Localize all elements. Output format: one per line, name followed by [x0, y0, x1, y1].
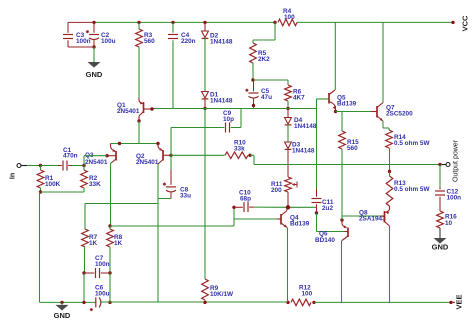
svg-text:10K/1W: 10K/1W — [210, 291, 234, 298]
svg-text:0.5 ohm 5W: 0.5 ohm 5W — [394, 140, 430, 147]
svg-text:47u: 47u — [261, 94, 272, 101]
svg-text:4K7: 4K7 — [293, 95, 305, 102]
svg-text:2SC5200: 2SC5200 — [386, 111, 413, 118]
svg-text:BD140: BD140 — [315, 237, 335, 244]
svg-text:100: 100 — [302, 291, 313, 298]
svg-text:33u: 33u — [180, 193, 191, 200]
svg-text:470n: 470n — [63, 153, 78, 160]
svg-text:100K: 100K — [45, 181, 61, 188]
svg-text:68p: 68p — [240, 196, 251, 203]
svg-text:2K2: 2K2 — [258, 56, 270, 63]
svg-text:100n: 100n — [76, 38, 91, 45]
svg-text:1N4148: 1N4148 — [294, 123, 317, 130]
svg-text:100n: 100n — [447, 195, 462, 202]
svg-text:In: In — [10, 173, 17, 179]
svg-text:10p: 10p — [223, 116, 234, 123]
svg-text:33K: 33K — [89, 181, 101, 188]
svg-text:1K: 1K — [89, 240, 98, 247]
svg-text:560: 560 — [347, 145, 358, 152]
svg-text:33k: 33k — [234, 146, 245, 153]
svg-text:GND: GND — [86, 70, 103, 79]
svg-text:Bd139: Bd139 — [290, 221, 310, 228]
svg-text:0.5 ohm 5W: 0.5 ohm 5W — [394, 186, 430, 193]
svg-text:Output power: Output power — [453, 139, 460, 182]
svg-text:100n: 100n — [95, 261, 110, 268]
svg-text:2N5401: 2N5401 — [117, 108, 140, 115]
svg-text:2u2: 2u2 — [322, 205, 333, 212]
svg-text:GND: GND — [432, 243, 449, 252]
svg-text:1N4148: 1N4148 — [292, 148, 315, 155]
svg-text:VEE: VEE — [455, 294, 464, 309]
svg-text:200: 200 — [271, 187, 282, 194]
svg-text:100u: 100u — [95, 291, 110, 298]
svg-text:10: 10 — [445, 220, 453, 227]
svg-text:560: 560 — [144, 38, 155, 45]
svg-text:220n: 220n — [181, 38, 196, 45]
svg-text:Bd139: Bd139 — [337, 101, 357, 108]
svg-text:100: 100 — [284, 14, 295, 21]
svg-text:1N4148: 1N4148 — [210, 98, 233, 105]
svg-text:GND: GND — [54, 311, 71, 320]
svg-text:2N5401: 2N5401 — [136, 159, 159, 166]
svg-text:1N4148: 1N4148 — [210, 39, 233, 46]
svg-text:100u: 100u — [101, 38, 116, 45]
svg-text:2N5401: 2N5401 — [85, 159, 108, 166]
svg-text:VCC: VCC — [461, 15, 470, 31]
svg-text:1K: 1K — [114, 240, 123, 247]
